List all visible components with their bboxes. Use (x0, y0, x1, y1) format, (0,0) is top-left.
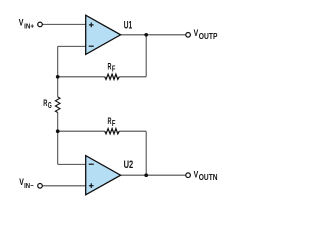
svg-text:OUTP: OUTP (199, 32, 218, 41)
svg-text:F: F (112, 119, 116, 128)
svg-text:IN+: IN+ (24, 23, 34, 30)
svg-text:V: V (19, 18, 24, 28)
svg-text:IN−: IN− (24, 183, 33, 190)
svg-text:U2: U2 (124, 159, 134, 171)
svg-text:U1: U1 (124, 20, 132, 32)
svg-text:OUTN: OUTN (199, 173, 218, 182)
svg-text:V: V (194, 169, 199, 179)
svg-text:G: G (48, 101, 52, 110)
svg-text:F: F (112, 65, 116, 74)
svg-text:V: V (194, 28, 199, 38)
